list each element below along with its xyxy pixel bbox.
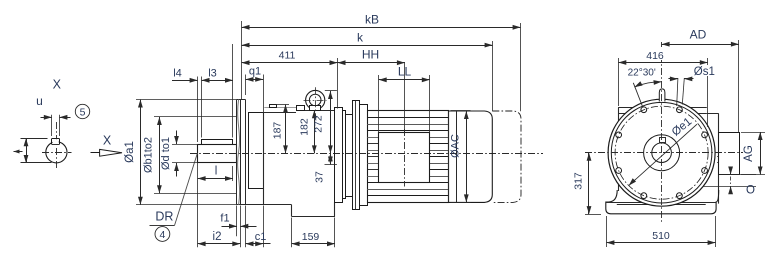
svg-text:510: 510 (652, 230, 670, 242)
svg-text:k: k (357, 31, 364, 45)
svg-text:i2: i2 (213, 231, 222, 243)
svg-text:f1: f1 (220, 213, 229, 225)
svg-text:37: 37 (314, 171, 326, 183)
svg-text:l3: l3 (208, 68, 217, 80)
svg-text:411: 411 (279, 50, 296, 62)
svg-text:Ød to1: Ød to1 (160, 137, 172, 170)
svg-text:Øb1to2: Øb1to2 (143, 137, 155, 173)
svg-text:Øs1: Øs1 (694, 66, 715, 78)
svg-text:DR: DR (155, 210, 173, 224)
svg-text:c1: c1 (255, 231, 267, 243)
svg-text:272: 272 (313, 115, 325, 133)
svg-text:AG: AG (743, 145, 755, 162)
svg-text:LL: LL (398, 65, 412, 79)
svg-text:ØAC: ØAC (450, 134, 462, 158)
svg-text:416: 416 (646, 50, 664, 62)
svg-text:4: 4 (159, 229, 165, 241)
svg-text:Øa1: Øa1 (124, 141, 136, 163)
svg-text:u: u (36, 94, 43, 108)
svg-text:l: l (215, 166, 218, 178)
svg-text:22°30': 22°30' (628, 68, 656, 79)
svg-text:X: X (53, 78, 62, 92)
svg-text:182: 182 (299, 118, 311, 136)
svg-text:AD: AD (690, 28, 707, 42)
svg-text:O: O (746, 185, 755, 197)
svg-text:187: 187 (271, 122, 283, 140)
svg-text:159: 159 (302, 231, 320, 243)
svg-text:q1: q1 (249, 66, 261, 78)
svg-text:l4: l4 (173, 68, 182, 80)
svg-text:HH: HH (362, 48, 379, 62)
svg-text:kB: kB (365, 13, 379, 27)
svg-text:X: X (103, 134, 112, 148)
svg-text:5: 5 (80, 106, 86, 118)
svg-text:317: 317 (573, 172, 585, 190)
